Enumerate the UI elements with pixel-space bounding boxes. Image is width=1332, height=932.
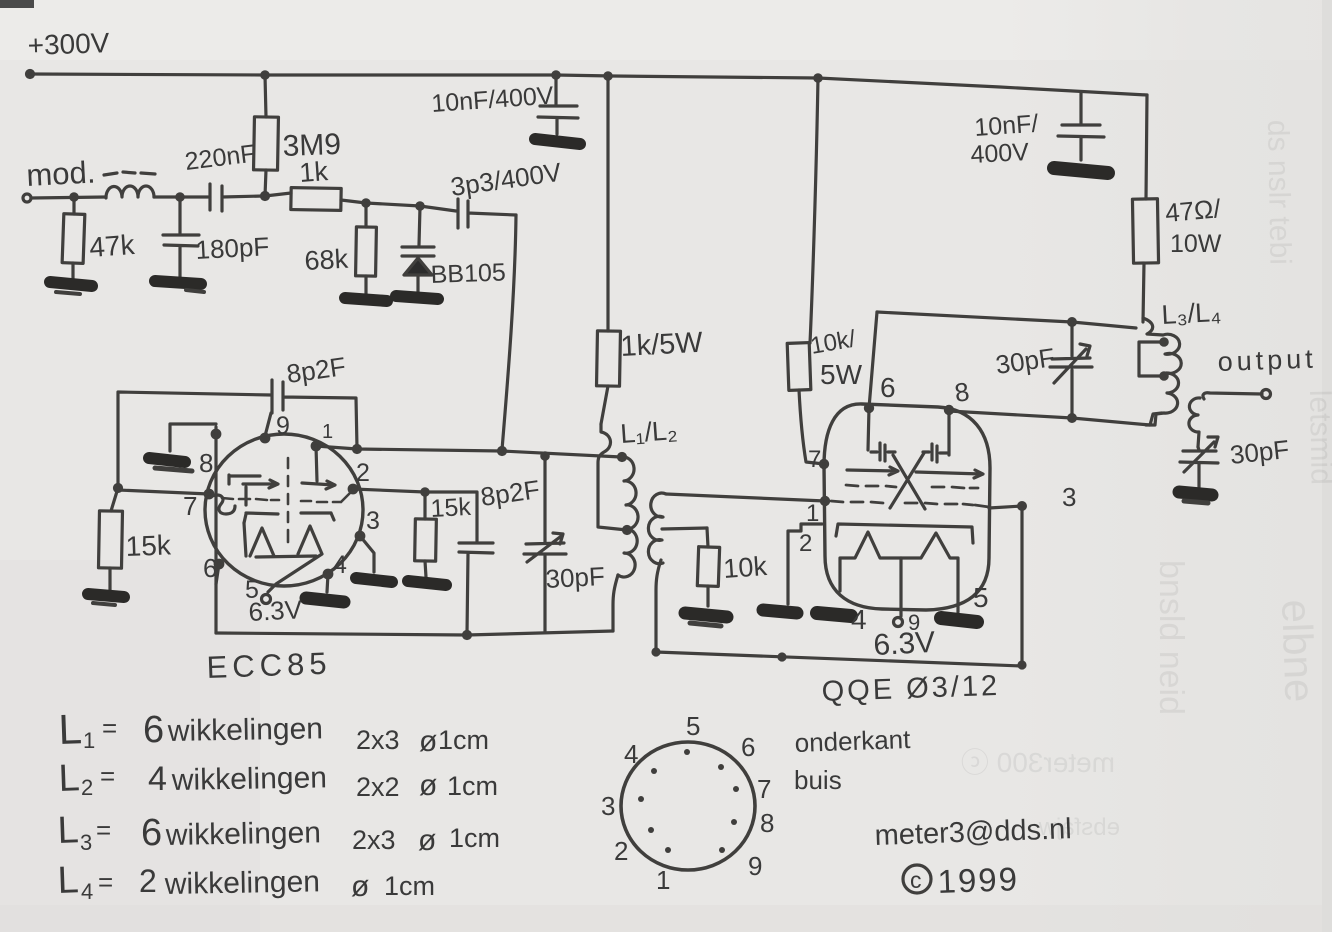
- ground 10k: [685, 613, 727, 626]
- svg-text:2: 2: [614, 836, 628, 866]
- svg-text:wikkelingen: wikkelingen: [164, 865, 321, 901]
- screen loop wire QQE top: [877, 312, 1136, 328]
- svg-text:1: 1: [83, 728, 95, 753]
- label copyright 1999: [903, 860, 1020, 900]
- socket pin label 2: [614, 836, 628, 866]
- inductor L2: [648, 493, 666, 652]
- svg-text:6: 6: [880, 372, 896, 403]
- coil table line L3: [57, 809, 500, 857]
- pin 7 QQE: [808, 446, 828, 473]
- svg-text:9: 9: [276, 412, 290, 440]
- wire pin7 to grid bias: [118, 490, 209, 494]
- svg-text:c: c: [910, 867, 922, 893]
- svg-text:mod.: mod.: [26, 154, 97, 193]
- svg-text:wikkelingen: wikkelingen: [165, 816, 322, 852]
- svg-text:1: 1: [656, 865, 670, 895]
- svg-text:7: 7: [757, 774, 771, 804]
- heater center lead QQE: [894, 558, 921, 635]
- neutralizing cap symbol right inside QQE: [923, 444, 947, 462]
- pin 3 QQE wire: [989, 482, 1076, 512]
- pin 2 ECC85: [349, 459, 370, 493]
- svg-text:ø: ø: [419, 769, 437, 802]
- svg-text:1cm: 1cm: [447, 771, 498, 801]
- svg-text:=: =: [102, 713, 117, 743]
- svg-text:2: 2: [356, 459, 370, 487]
- trimmer capacitor 30pF tank1: [524, 453, 566, 631]
- pin 6 ECC85: [203, 553, 223, 584]
- junction 15k-loop: [115, 485, 122, 492]
- label output: [1217, 344, 1317, 377]
- label ECC85: [206, 646, 332, 685]
- pin 8 ECC85 shield wire: [199, 427, 220, 633]
- cross wires inside QQE: [890, 453, 925, 509]
- resistor R 10k: [697, 528, 719, 606]
- junction 68k: [363, 200, 369, 206]
- pin 4 QQE ground: [817, 604, 867, 635]
- cathode left ECC85: [244, 513, 278, 523]
- capacitor C 220nF: [210, 184, 263, 211]
- svg-text:6.3V: 6.3V: [248, 594, 304, 627]
- label 30pF output: [1228, 434, 1290, 470]
- choke L input coil: [106, 186, 154, 198]
- cathode bus rail QQE: [653, 506, 1025, 668]
- svg-text:6: 6: [141, 812, 162, 854]
- junction 3M9-mod: [262, 193, 269, 200]
- pin 7 ECC85: [183, 490, 213, 521]
- junction 8p2F right end: [354, 446, 361, 453]
- ground 30pF output: [1179, 492, 1212, 503]
- svg-text:5: 5: [686, 711, 700, 741]
- trimmer capacitor 30pF output: [1180, 437, 1218, 487]
- ground BB105: [396, 296, 438, 299]
- input terminal: [23, 194, 31, 202]
- label onderkant buis: [794, 724, 912, 795]
- label meter3@dds.nl: [874, 813, 1072, 852]
- svg-text:4: 4: [148, 760, 167, 798]
- label 15k grid: [125, 529, 172, 562]
- svg-text:30pF: 30pF: [1228, 434, 1290, 470]
- heater tents ECC85: [244, 523, 322, 592]
- svg-text:2x2: 2x2: [356, 772, 400, 802]
- svg-text:L: L: [58, 757, 81, 800]
- wire output terminal: [1203, 390, 1271, 400]
- inductor L1: [613, 454, 638, 632]
- svg-text:68k: 68k: [304, 244, 350, 276]
- svg-text:2: 2: [139, 863, 157, 899]
- label 47k: [88, 229, 136, 263]
- svg-text:6: 6: [143, 709, 164, 751]
- wire ECC85 anode pin1 to L1 top: [316, 446, 621, 457]
- svg-text:8: 8: [760, 808, 774, 838]
- svg-text:QQE Ø3/12: QQE Ø3/12: [821, 670, 1001, 708]
- capacitor C 10nF/400V first: [538, 75, 578, 134]
- svg-text:wikkelingen: wikkelingen: [171, 761, 328, 797]
- cathode right ECC85: [301, 513, 334, 520]
- svg-text:5: 5: [973, 582, 989, 613]
- capacitor C 3p3/400V: [458, 199, 516, 228]
- svg-text:L₃/L₄: L₃/L₄: [1161, 297, 1222, 330]
- label 6.3V QQE: [873, 626, 936, 662]
- tube socket diagram circle: [621, 742, 755, 870]
- svg-text:4: 4: [333, 551, 347, 579]
- tube ECC85 envelope: [205, 434, 363, 586]
- node +300V label: [27, 27, 110, 61]
- label 8p2F cathode: [479, 474, 542, 512]
- ground 10nF first: [535, 139, 580, 144]
- capacitor C 8p2F cathode: [459, 543, 493, 634]
- resistor R 10k/5W: [787, 78, 824, 464]
- svg-text:ebsfajw: ebsfajw: [1038, 814, 1120, 841]
- svg-text:180pF: 180pF: [195, 231, 270, 265]
- resistor R 1k: [265, 188, 366, 211]
- ground 15k grid: [88, 594, 124, 605]
- cathode bus rail ECC85: [216, 631, 613, 635]
- junction rail-10k5W: [815, 75, 821, 81]
- svg-text:ø: ø: [351, 870, 369, 903]
- label 8p2F feedback: [285, 351, 348, 389]
- svg-text:8: 8: [199, 448, 213, 478]
- svg-text:ø: ø: [418, 824, 436, 857]
- svg-text:2: 2: [799, 530, 812, 557]
- label 47ohm/10W: [1164, 193, 1223, 258]
- resistor R 15k grid: [98, 488, 122, 590]
- capacitor C 8p2F feedback: [265, 380, 357, 448]
- svg-text:L: L: [57, 809, 80, 852]
- capacitor C 180pF: [163, 194, 199, 277]
- anode bar right QQE: [916, 470, 983, 478]
- svg-text:10W: 10W: [1170, 230, 1222, 258]
- anode bar left QQE: [847, 467, 898, 475]
- socket pin label 6: [741, 732, 755, 762]
- label 3p3/400V: [449, 157, 564, 202]
- grid dashes row pin1 QQE: [831, 501, 989, 507]
- svg-text:L₁/L₂: L₁/L₂: [619, 415, 678, 449]
- label BB105: [430, 258, 506, 289]
- label 220nF: [183, 140, 257, 176]
- label L3/L4: [1161, 297, 1222, 330]
- junction rail-C10nF-1: [553, 72, 559, 78]
- resistor R 68k: [356, 204, 377, 294]
- choke L ferrite dashes: [104, 172, 155, 175]
- junction 8p2F bottom: [464, 632, 471, 639]
- svg-text:letsmid: letsmid: [1303, 390, 1332, 486]
- resistor R 1k/5W: [597, 76, 621, 424]
- svg-text:6: 6: [741, 732, 755, 762]
- svg-text:10nF/: 10nF/: [973, 110, 1039, 142]
- wire crossover hop to L1 tap: [598, 424, 627, 530]
- label 30pF neutralizing: [994, 342, 1057, 380]
- label 10nF/400V first: [430, 81, 554, 117]
- svg-text:=: =: [98, 867, 113, 897]
- label 30pF tank1: [545, 561, 606, 594]
- label 68k: [304, 244, 350, 276]
- trimmer capacitor 30pF neutralizing: [1050, 319, 1092, 418]
- socket pin label 4: [624, 739, 638, 769]
- inductor L3 left return: [1139, 342, 1164, 376]
- label 180pF: [195, 231, 270, 265]
- resistor R 15k cathode: [415, 492, 437, 577]
- svg-text:wikkelingen: wikkelingen: [167, 712, 324, 748]
- svg-text:7: 7: [183, 491, 197, 521]
- resistor R 47k: [62, 198, 85, 279]
- svg-text:1cm: 1cm: [384, 871, 435, 901]
- coil table line L2: [58, 757, 498, 802]
- svg-text:1cm: 1cm: [438, 725, 489, 755]
- resistor R 3M9: [254, 75, 279, 196]
- socket pin label 7: [757, 774, 771, 804]
- svg-text:7: 7: [808, 446, 821, 473]
- triode anode right ECC85 with pin1 lead: [302, 446, 335, 489]
- junction 15k cathode: [422, 489, 428, 495]
- label 15k cathode: [430, 493, 472, 523]
- junction BB105: [417, 203, 423, 209]
- junction 3p3 wire: [499, 448, 506, 455]
- ground 15k cathode: [408, 581, 446, 585]
- svg-text:6.3V: 6.3V: [873, 626, 936, 662]
- svg-text:ds nslr tebi: ds nslr tebi: [1261, 120, 1297, 266]
- label 6.3V ECC85: [248, 594, 304, 627]
- label 3M9: [282, 128, 341, 163]
- svg-text:15k: 15k: [430, 493, 472, 523]
- pin 5 QQE ground: [941, 582, 989, 622]
- node mod. label: [26, 154, 97, 193]
- pin 4 ECC85 wire and ground: [306, 551, 347, 602]
- pin 6 QQE anode lead: [865, 312, 895, 450]
- coil table line L1: [58, 705, 489, 758]
- svg-text:9: 9: [748, 851, 762, 881]
- svg-text:ECC85: ECC85: [206, 646, 332, 685]
- wire pin8 to L3 bottom: [949, 411, 1162, 425]
- svg-text:ø: ø: [419, 725, 437, 758]
- socket pin label 3: [601, 791, 615, 821]
- label 10k/5W: [808, 325, 862, 390]
- svg-text:400V: 400V: [970, 138, 1030, 169]
- shield dash line center ECC85: [287, 458, 290, 542]
- ground 10nF second: [1054, 168, 1108, 173]
- wire 3p3 down to oscillator tank: [502, 215, 516, 450]
- tube QQE03/12 envelope: [824, 404, 990, 610]
- svg-text:L: L: [58, 705, 83, 753]
- grid dashes left triode: [222, 498, 279, 500]
- neutralizing cap symbol left inside QQE: [871, 443, 895, 461]
- beam plate QQE: [836, 524, 973, 543]
- svg-text:output: output: [1217, 344, 1317, 377]
- svg-text:30pF: 30pF: [545, 561, 606, 594]
- label L1/L2: [619, 415, 678, 449]
- cathode crown QQE: [840, 532, 958, 612]
- svg-text:15k: 15k: [125, 529, 172, 562]
- svg-text:1999: 1999: [937, 860, 1020, 900]
- socket pin label 1: [656, 865, 670, 895]
- capacitor C 10nF/400V second: [1058, 93, 1104, 160]
- pin 3 ECC85 wire and ground: [356, 507, 392, 582]
- pin 5 ECC85 heater terminal: [245, 576, 271, 604]
- triode anode left ECC85: [229, 475, 278, 505]
- svg-text:meter300 ⓒ: meter300 ⓒ: [961, 747, 1115, 778]
- wire L2 tap to 10k: [662, 528, 707, 529]
- svg-text:onderkant: onderkant: [794, 724, 911, 758]
- power rail +300V: [27, 71, 1148, 96]
- pin 2 QQE wire and ground: [763, 524, 822, 613]
- svg-text:47Ω/: 47Ω/: [1164, 193, 1223, 228]
- svg-text:2: 2: [81, 775, 93, 800]
- svg-text:1k: 1k: [298, 156, 329, 188]
- label QQE 03/12: [821, 670, 1001, 708]
- svg-text:1k/5W: 1k/5W: [620, 327, 704, 363]
- socket pin label 8: [760, 808, 774, 838]
- svg-text:BB105: BB105: [430, 258, 506, 289]
- label 1k/5W: [620, 327, 704, 363]
- pin 8 QQE anode lead: [945, 376, 971, 455]
- svg-text:4: 4: [851, 604, 867, 635]
- wire L2 top to QQE grid pin1: [666, 494, 825, 501]
- grid dashes right triode: [301, 490, 353, 502]
- svg-text:=: =: [96, 815, 111, 845]
- junction rail-1k5W: [605, 73, 611, 79]
- ground 180pF: [155, 281, 204, 292]
- socket pin label 5: [686, 711, 700, 741]
- socket pin label 9: [748, 851, 762, 881]
- svg-text:1: 1: [322, 421, 333, 443]
- bleed-through faint marks: [961, 120, 1332, 841]
- svg-text:bnsld neid: bnsld neid: [1152, 560, 1190, 715]
- wire input to choke: [31, 197, 106, 198]
- svg-text:3: 3: [366, 507, 380, 535]
- grid dashes row pin7 QQE: [846, 485, 978, 488]
- resistor R 47ohm/10W: [1132, 95, 1158, 322]
- svg-text:=: =: [100, 761, 115, 791]
- ground pin8 ECC85: [149, 424, 216, 471]
- grid curl pin7 ECC85: [212, 495, 235, 514]
- inductor L4: [1189, 398, 1200, 447]
- svg-text:10k: 10k: [722, 551, 768, 584]
- svg-text:3: 3: [1062, 482, 1076, 512]
- wire 1k to BB105 to 3p3: [366, 203, 456, 211]
- label 10nF/400V second: [970, 110, 1039, 169]
- loop wire 8p2F feedback top: [118, 392, 271, 488]
- label 10k: [722, 551, 768, 584]
- svg-text:L: L: [57, 859, 80, 902]
- pin 1 ECC85: [312, 421, 333, 450]
- svg-text:4: 4: [81, 879, 93, 904]
- svg-text:elbne: elbne: [1273, 599, 1324, 703]
- svg-text:3: 3: [601, 791, 615, 821]
- pin 9 ECC85: [261, 412, 290, 442]
- label 1k: [298, 156, 329, 188]
- inductor L3: [1143, 318, 1181, 425]
- svg-text:2x3: 2x3: [352, 825, 396, 855]
- junction rail-3M9: [262, 72, 268, 78]
- svg-text:buis: buis: [794, 765, 842, 795]
- ground 68k: [345, 298, 387, 301]
- wire pin2 to cathode network: [353, 489, 477, 541]
- wire choke to 220nF: [154, 195, 208, 198]
- pin 1 QQE: [806, 497, 829, 527]
- varicap diode BB105: [402, 207, 434, 292]
- coil table line L4: [57, 859, 435, 904]
- socket pin dots: [638, 749, 739, 853]
- ground 47k: [50, 282, 92, 294]
- svg-text:5W: 5W: [820, 359, 863, 390]
- svg-text:3: 3: [80, 830, 92, 855]
- svg-text:47k: 47k: [88, 229, 136, 263]
- svg-text:2x3: 2x3: [356, 725, 400, 755]
- svg-text:+300V: +300V: [27, 27, 110, 61]
- svg-text:1cm: 1cm: [449, 823, 500, 853]
- svg-text:4: 4: [624, 739, 638, 769]
- junction 47k: [71, 194, 77, 200]
